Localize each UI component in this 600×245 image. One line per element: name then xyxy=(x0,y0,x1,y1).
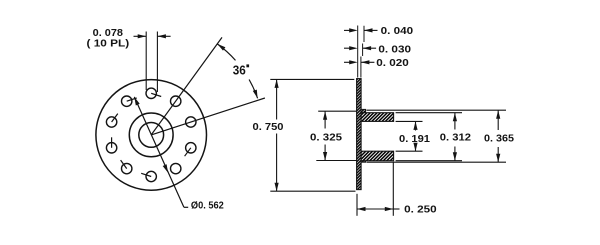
svg-text:0. 250: 0. 250 xyxy=(404,204,437,216)
0.312 top extension line xyxy=(396,112,462,114)
dim 0.250 right arrow xyxy=(385,207,394,211)
dim 0.250 right extension line xyxy=(392,162,394,216)
flange outer circle (front view) xyxy=(96,80,207,191)
dim 0.250 left extension line xyxy=(356,194,358,216)
pin hole 4 (198 deg) xyxy=(106,143,116,153)
dim 0.030 extension line right xyxy=(362,44,364,57)
dim 0.040 left arrow xyxy=(344,29,350,31)
pin hole 8 tick xyxy=(185,148,191,156)
pin hole 2 (126 deg) xyxy=(122,96,132,106)
svg-text:0. 040: 0. 040 xyxy=(381,25,414,37)
pin hole 3 tick xyxy=(112,114,118,122)
dim dia 0.562 leader tail xyxy=(184,206,188,208)
pin hole 6 tick xyxy=(141,173,151,176)
dim 0.750 top extension line xyxy=(270,78,354,80)
hub flare lower (section) xyxy=(361,161,366,163)
dim 0.040 extension line right xyxy=(363,26,365,42)
dim 0.078 left arrow xyxy=(134,35,147,37)
dim 0.078 extension line right xyxy=(156,32,158,93)
dim 0.020 left arrow xyxy=(344,61,350,63)
dim 0.078 extension line left xyxy=(145,32,147,91)
0.312 bottom extension line xyxy=(396,160,462,162)
svg-text:Ø0. 562: Ø0. 562 xyxy=(191,200,224,212)
36 deg leg through hole at 18 deg xyxy=(151,98,265,135)
degree mark for 36 xyxy=(246,64,249,67)
svg-text:0. 750: 0. 750 xyxy=(253,121,284,133)
svg-text:( 10 PL): ( 10 PL) xyxy=(87,38,130,50)
pin hole 5 (234 deg) xyxy=(122,163,132,173)
pin hole 10 (54 deg) xyxy=(171,96,181,106)
pin hole 7 (306 deg) xyxy=(171,163,181,173)
dim 0.250 leader tail xyxy=(393,208,399,210)
dim 0.191 up arrow xyxy=(415,121,417,130)
svg-text:0. 365: 0. 365 xyxy=(484,132,514,144)
dim 0.750 up arrow xyxy=(275,79,279,88)
0.365 bottom extension line xyxy=(367,161,507,163)
pin hole 9 (18 deg) xyxy=(186,117,196,127)
36 deg arc arrowhead upper xyxy=(217,44,225,51)
dim 0.750 vertical line upper xyxy=(276,79,278,119)
dim 0.030 left arrow xyxy=(344,47,350,49)
svg-text:0. 020: 0. 020 xyxy=(376,57,409,69)
dim 0.750 vertical line lower xyxy=(276,134,278,192)
dim 0.325 down arrow xyxy=(323,152,327,161)
hub lower wall (section, hatched) xyxy=(361,151,394,161)
svg-text:36: 36 xyxy=(233,62,246,77)
hub flare upper (section) xyxy=(361,109,366,112)
flange front face extension line xyxy=(357,26,359,78)
dim 0.325 vertical line lower xyxy=(324,145,326,161)
hub outer circle (front view) xyxy=(129,113,173,157)
pin hole 3 (162 deg) xyxy=(106,117,116,127)
dim 0.250 left arrow xyxy=(357,207,366,211)
dim 0.750 bottom extension line xyxy=(270,190,355,192)
center bore circle (front view) xyxy=(139,122,164,147)
svg-text:0. 325: 0. 325 xyxy=(310,132,342,144)
dim dia 0.562 arrow upper xyxy=(134,97,139,106)
pin hole 4 tick xyxy=(111,137,113,148)
dim 0.312 up arrow xyxy=(454,113,456,130)
dim 0.365 up arrow xyxy=(497,110,499,130)
dim 0.078 right arrow xyxy=(157,35,170,37)
dim 0.325 top extension line xyxy=(318,110,356,112)
36 deg dimension arc lower segment xyxy=(249,80,258,99)
dim 0.250 dimension line xyxy=(357,208,393,210)
dim 0.312 down arrow xyxy=(454,147,456,161)
36 deg dimension arc upper segment xyxy=(217,44,235,61)
0.365 top extension line xyxy=(367,109,507,111)
dim 0.191 down arrow xyxy=(415,146,417,151)
0.191 bottom extension line xyxy=(396,150,423,152)
pin hole 5 tick xyxy=(121,160,127,169)
svg-text:0. 312: 0. 312 xyxy=(440,132,471,144)
dim 0.325 vertical line upper xyxy=(324,111,326,128)
36 deg arc arrowhead lower xyxy=(253,90,258,99)
dim 0.020 right arrow xyxy=(361,61,375,63)
dim 0.325 up arrow xyxy=(323,111,327,120)
dim dia 0.562 arrow lower xyxy=(163,164,168,173)
dim 0.325 bottom extension line xyxy=(316,160,356,162)
dim dia 0.562 diametral line xyxy=(134,97,184,207)
36 deg leg through hole at 54 deg xyxy=(151,37,222,134)
0.191 top extension line xyxy=(396,120,423,122)
dim 0.030 right arrow xyxy=(363,47,377,49)
svg-text:0. 030: 0. 030 xyxy=(378,44,411,56)
hub upper wall (section, hatched) xyxy=(361,113,394,122)
dim 0.365 down arrow xyxy=(497,147,499,162)
pin hole 2 tick xyxy=(127,98,137,101)
dim 0.750 down arrow xyxy=(275,183,279,192)
flange plate (section, hatched) xyxy=(357,79,362,190)
svg-text:0. 191: 0. 191 xyxy=(399,133,430,145)
dim 0.020 extension line right xyxy=(360,57,362,78)
pin hole 1 (90 deg) xyxy=(146,88,156,98)
pin hole 6 (270 deg) xyxy=(146,171,156,181)
pin hole 1 tick xyxy=(151,93,161,96)
pin hole 8 (342 deg) xyxy=(186,143,196,153)
dim 0.040 right arrow xyxy=(364,29,378,31)
